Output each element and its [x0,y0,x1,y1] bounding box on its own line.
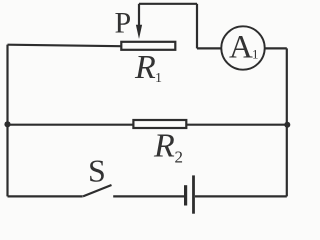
svg-text:R: R [153,127,175,164]
svg-text:R: R [134,49,156,86]
svg-text:1: 1 [252,47,259,62]
svg-text:S: S [88,153,106,189]
svg-text:A: A [229,30,253,66]
svg-text:P: P [115,7,132,40]
svg-text:1: 1 [155,71,162,86]
svg-text:2: 2 [175,148,184,167]
